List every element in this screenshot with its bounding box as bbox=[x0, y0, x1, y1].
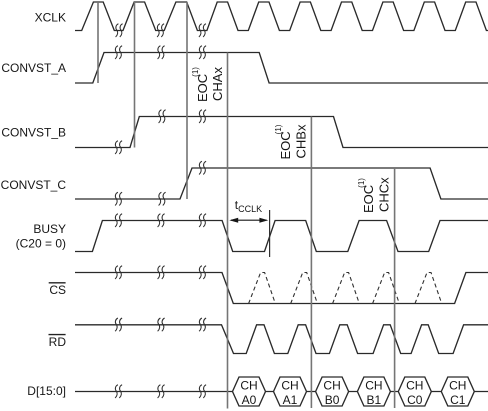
break marks on RD bbox=[115, 318, 206, 331]
wire XCLK clock waveform bbox=[75, 2, 488, 31]
node data word CH C0 bbox=[398, 377, 431, 407]
wire CS dashed pulse 1 bbox=[249, 273, 276, 304]
svg-text:B0: B0 bbox=[325, 393, 340, 407]
svg-text:tCCLK: tCCLK bbox=[235, 198, 262, 214]
svg-text:A1: A1 bbox=[283, 393, 298, 407]
break marks on D bus bbox=[115, 385, 206, 398]
svg-text:CH: CH bbox=[281, 378, 298, 392]
wire event line EOC CHAx bbox=[227, 53, 229, 409]
svg-text:CS: CS bbox=[49, 283, 66, 297]
svg-text:C0: C0 bbox=[407, 393, 423, 407]
wire event line EOC CHBx bbox=[310, 117, 312, 409]
svg-text:C1: C1 bbox=[450, 393, 466, 407]
svg-text:EOC(1): EOC(1) bbox=[191, 67, 210, 102]
wire tCCLK right boundary tick bbox=[269, 210, 271, 257]
svg-text:CONVST_A: CONVST_A bbox=[1, 61, 66, 75]
wire CS dashed pulse 2 bbox=[291, 273, 318, 304]
svg-text:CH: CH bbox=[406, 378, 423, 392]
wire CONVST_A waveform bbox=[75, 53, 488, 84]
wire CS dashed pulse 3 bbox=[333, 273, 360, 304]
node EOC(1) CHCx label bbox=[357, 177, 392, 213]
svg-text:CH: CH bbox=[323, 378, 340, 392]
svg-text:CONVST_B: CONVST_B bbox=[1, 126, 66, 140]
svg-text:BUSY: BUSY bbox=[33, 222, 66, 236]
wire D bus idle line bbox=[75, 391, 488, 393]
wire event line EOC CHCx bbox=[394, 168, 396, 408]
node RD label with overline bbox=[49, 335, 67, 349]
break marks on CONVST_A bbox=[115, 46, 206, 59]
svg-text:CH: CH bbox=[240, 378, 257, 392]
node EOC(1) CHAx label bbox=[191, 67, 225, 102]
wire event line CONVST_A sample (grey) bbox=[97, 2, 99, 83]
wire CS dashed pulse 4 bbox=[373, 273, 400, 304]
node data word CH C1 bbox=[441, 377, 474, 407]
svg-text:EOC(1): EOC(1) bbox=[274, 124, 293, 159]
svg-text:CHAx: CHAx bbox=[210, 67, 225, 101]
svg-text:CHCx: CHCx bbox=[377, 177, 392, 212]
svg-text:B1: B1 bbox=[367, 393, 382, 407]
break marks on XCLK bbox=[116, 24, 206, 37]
break marks on CONVST_B bbox=[115, 110, 206, 154]
wire event line CONVST_C sample bbox=[186, 2, 188, 199]
wire tCCLK measurement arrow bbox=[229, 218, 268, 223]
svg-text:A0: A0 bbox=[242, 393, 257, 407]
wire CS waveform solid bbox=[75, 273, 488, 304]
node EOC(1) CHBx label bbox=[274, 124, 309, 159]
svg-text:CH: CH bbox=[449, 378, 466, 392]
svg-text:CH: CH bbox=[365, 378, 382, 392]
node data word CH A0 bbox=[233, 377, 266, 407]
svg-text:CONVST_C: CONVST_C bbox=[1, 178, 67, 192]
wire CONVST_C waveform bbox=[75, 168, 488, 199]
wire event line CONVST_B sample bbox=[134, 2, 136, 148]
svg-text:RD: RD bbox=[49, 335, 67, 349]
svg-text:(C20 = 0): (C20 = 0) bbox=[16, 237, 66, 251]
wire CONVST_B waveform bbox=[75, 117, 488, 148]
wire RD waveform bbox=[75, 325, 488, 354]
svg-text:XCLK: XCLK bbox=[35, 11, 66, 25]
node data word CH B0 bbox=[316, 377, 349, 407]
svg-text:D[15:0]: D[15:0] bbox=[27, 384, 66, 398]
node data word CH B1 bbox=[357, 377, 390, 407]
wire BUSY waveform bbox=[75, 221, 488, 252]
svg-text:EOC(1): EOC(1) bbox=[357, 178, 376, 213]
break marks on BUSY bbox=[115, 214, 206, 227]
break marks on CONVST_C bbox=[115, 161, 206, 205]
wire CS dashed pulse 5 bbox=[415, 273, 442, 304]
node CS label with overline bbox=[49, 283, 66, 297]
node data word CH A1 bbox=[274, 377, 307, 407]
svg-text:CHBx: CHBx bbox=[294, 124, 309, 158]
break marks on CS bbox=[115, 266, 206, 279]
